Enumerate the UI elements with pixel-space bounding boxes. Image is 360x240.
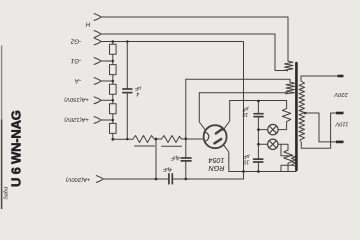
terminal -G1	[94, 58, 101, 65]
wire lamp1 left	[258, 129, 267, 131]
labels (all rotated 180 deg as in scan)	[64, 21, 349, 183]
wire chain bottom rail to rectifier	[113, 138, 133, 140]
terminal -A	[94, 78, 101, 85]
capacitor C1 plates	[123, 89, 132, 93]
capacitor C1 vertical feed from -G2 line	[126, 42, 128, 140]
wire lamp2 right to resistor R9	[278, 144, 288, 150]
svg-text:+A(200V): +A(200V)	[66, 176, 91, 182]
tube filament	[204, 132, 209, 141]
wire between R6 and R7	[154, 138, 161, 140]
transformer core	[295, 63, 298, 170]
wire +A(150V) to divider chain	[101, 99, 113, 101]
wire R7 to tube filament	[182, 138, 204, 140]
svg-text:H: H	[85, 21, 90, 28]
resistor R4 (chain box)	[110, 104, 117, 114]
svg-text:4μF: 4μF	[170, 155, 180, 161]
svg-text:1054: 1054	[209, 156, 225, 165]
terminal -G2	[94, 38, 101, 45]
svg-text:-G1: -G1	[71, 57, 82, 64]
plug 110V	[336, 141, 344, 144]
svg-text:μF: μF	[242, 106, 250, 112]
wire W2 top feed	[186, 79, 290, 82]
wire mains bottom to middle plug	[301, 113, 336, 148]
wire anode lead down into tube	[223, 101, 230, 131]
rail y171.5	[229, 171, 296, 173]
capacitor C2 plates (4uF on x185.8)	[181, 158, 191, 161]
lamp LP1	[268, 124, 278, 134]
wire lamp1 right to resistor R8	[278, 122, 287, 130]
R9 bottom feed	[287, 163, 289, 171]
divider chain vertical wire	[112, 42, 114, 140]
plug middle	[336, 112, 344, 115]
terminal +A(150V)	[94, 97, 101, 104]
wire DC output rail x185.8 down from W2-top wire	[185, 79, 187, 179]
capacitor C5 plates	[254, 159, 263, 162]
winding W4	[292, 156, 296, 167]
winding W4 feeds	[281, 144, 292, 171]
mains winding (right zigzag)	[299, 81, 305, 141]
wire H2 to winding W1 bottom	[101, 34, 288, 71]
wire lamp2 left	[258, 143, 267, 145]
resistor R3 (chain box)	[110, 84, 117, 94]
wire +A(120V) to divider chain	[101, 119, 113, 121]
wire filament lead down into tube	[199, 93, 205, 131]
svg-text:+A(150V): +A(150V)	[64, 96, 89, 102]
resistor R9 (vertical zigzag)	[284, 150, 292, 163]
tube anode plate top	[216, 129, 223, 134]
capacitor C3 plates (series 4uF)	[169, 174, 172, 184]
resistor R1 (chain box)	[110, 44, 117, 54]
resistor R8 (vertical zigzag)	[282, 108, 290, 121]
terminal +A(200V)	[96, 176, 103, 183]
capacitor C4 plates	[254, 114, 263, 117]
terminal +A(120V)	[94, 117, 101, 124]
svg-text:-G2: -G2	[70, 37, 81, 44]
wire H1 to transformer winding W1 top	[101, 17, 288, 61]
plug 220V	[338, 75, 344, 78]
rectifier tube U1 envelope	[204, 125, 227, 148]
terminal H1	[94, 14, 101, 21]
wire vertical x156 to bottom wire	[155, 139, 157, 179]
svg-text:110V: 110V	[334, 120, 348, 126]
terminal H2	[94, 31, 101, 38]
tube anode plate bottom	[214, 139, 221, 143]
page edge line	[1, 46, 3, 120]
wire mains tap to 110V plug	[305, 113, 337, 142]
svg-text:220V: 220V	[333, 91, 349, 97]
resistor R6 (horizontal zigzag)	[133, 136, 154, 143]
lamp rail x258.4	[257, 101, 259, 172]
R6 underline bar	[135, 145, 155, 147]
resistor R2 (chain box)	[110, 65, 117, 75]
bottom wire from +A(200V)	[104, 178, 244, 180]
svg-text:Saba: Saba	[3, 187, 10, 200]
svg-text:μF: μF	[243, 153, 251, 159]
wire tube lower anode to rail	[223, 145, 229, 172]
wire anode top lead	[230, 100, 287, 102]
wire -A to divider chain	[101, 80, 113, 82]
resistor R7 (horizontal zigzag)	[162, 136, 182, 143]
wire -G2 long line right and down to bottom rail	[101, 42, 244, 180]
svg-text:-A: -A	[75, 77, 81, 84]
svg-text:U 6 WN-NAG: U 6 WN-NAG	[9, 110, 24, 187]
wire W2 bottom feed / tube filament left lead	[199, 92, 287, 94]
wire -G1 to divider chain	[101, 60, 113, 62]
page title	[3, 110, 24, 199]
svg-text:+A(120V): +A(120V)	[64, 116, 89, 122]
winding W2	[286, 82, 295, 94]
wire mains top to 220V plug	[301, 76, 338, 81]
R7 underline bar	[162, 145, 182, 147]
resistor R5 (chain box)	[110, 123, 117, 133]
R8 top feed	[286, 101, 288, 109]
svg-text:μF: μF	[134, 85, 142, 91]
lamp LP2	[268, 139, 278, 149]
winding W1	[285, 61, 294, 71]
svg-text:4μF: 4μF	[162, 166, 172, 172]
